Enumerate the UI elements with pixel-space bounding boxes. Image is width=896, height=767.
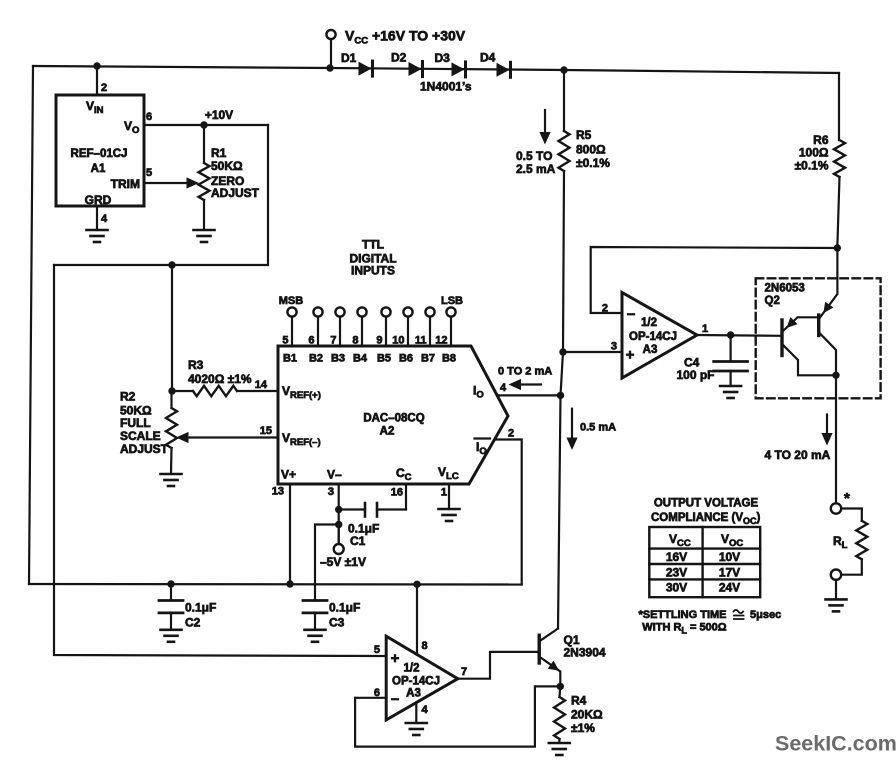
svg-text:+: +: [391, 650, 400, 667]
svg-text:+10V: +10V: [205, 108, 233, 122]
wiper wire pin15 to R2: [188, 436, 278, 438]
svg-text:1: 1: [702, 323, 708, 335]
pin 4 wire REF GRD: [96, 206, 98, 230]
svg-text:16: 16: [391, 487, 403, 499]
node: load terminal bottom: [831, 570, 841, 580]
svg-text:RL: RL: [833, 534, 848, 551]
svg-text:–: –: [391, 691, 399, 708]
input terminal bit B1 pin 5: [287, 307, 296, 316]
svg-text:100Ω: 100Ω: [799, 146, 829, 160]
svg-text:FULL: FULL: [120, 416, 151, 430]
svg-text:C1: C1: [350, 534, 366, 548]
wire: V+ bus horizontal: [29, 583, 522, 586]
annotation arrow 0.5 mA: [571, 409, 573, 438]
svg-text:C3: C3: [329, 616, 345, 630]
diode D1: [359, 62, 372, 76]
ground op-amp A3b: [406, 723, 427, 735]
capacitor C4 100 pF: [729, 335, 731, 362]
svg-text:SeekIC.com: SeekIC.com: [775, 732, 896, 756]
svg-text:1/2: 1/2: [641, 317, 657, 329]
svg-text:SCALE: SCALE: [120, 429, 161, 443]
resistor R3 4020 ohm: [168, 387, 175, 394]
svg-text:VCC: VCC: [669, 532, 691, 549]
wire: DAC IO pin4 output: [497, 394, 560, 396]
wire: left vertical VCC branch: [29, 66, 33, 584]
svg-text:5: 5: [374, 644, 380, 656]
svg-text:A1: A1: [91, 163, 106, 175]
svg-text:10: 10: [392, 335, 404, 347]
svg-text:R5: R5: [576, 128, 592, 142]
transistor Q2a driver base bar: [780, 320, 783, 356]
svg-text:8: 8: [352, 335, 358, 347]
input terminal bit B8 pin 12: [446, 307, 455, 316]
wire: feedback loop op-amp pin6 to Q1 emitter: [355, 686, 560, 746]
svg-text:23V: 23V: [666, 565, 687, 579]
svg-text:OP-14CJ: OP-14CJ: [629, 331, 677, 343]
ground REF A1: [87, 230, 108, 242]
svg-text:D1: D1: [341, 51, 357, 65]
wire: op-amp output pin 7 to Q1 base: [458, 652, 538, 679]
svg-text:GRD: GRD: [85, 193, 112, 207]
svg-text:7: 7: [330, 335, 336, 347]
pin 6 wire -input: [355, 697, 386, 699]
svg-text:3: 3: [328, 486, 334, 498]
svg-text:VOC: VOC: [721, 532, 743, 549]
svg-text:*SETTLING TIME: *SETTLING TIME: [639, 609, 727, 621]
svg-text:4: 4: [101, 213, 108, 225]
Q2a emitter to Q2b base with arrow: [783, 317, 819, 331]
svg-text:MSB: MSB: [279, 295, 304, 307]
pin 16 wire DAC Cc: [405, 484, 407, 510]
svg-text:R4: R4: [571, 694, 587, 708]
ground R1: [194, 230, 215, 242]
junction dot feedback node: [834, 244, 841, 251]
svg-text:B4: B4: [353, 353, 368, 365]
svg-text:0 TO 2 mA: 0 TO 2 mA: [498, 366, 552, 378]
svg-text:4020Ω ±1%: 4020Ω ±1%: [188, 372, 252, 386]
wire: op-amp output pin 1 to Q2 base: [697, 334, 782, 337]
svg-text:13: 13: [272, 486, 284, 498]
svg-text:24V: 24V: [719, 581, 740, 595]
ground R2: [161, 474, 182, 486]
svg-text:R3: R3: [188, 358, 204, 372]
svg-text:B3: B3: [331, 353, 345, 365]
svg-text:D2: D2: [391, 51, 407, 65]
svg-text:B6: B6: [399, 353, 413, 365]
svg-text:DAC–08CQ: DAC–08CQ: [363, 413, 424, 425]
svg-text:9: 9: [376, 335, 382, 347]
svg-text:1N4001’s: 1N4001’s: [420, 80, 472, 94]
svg-text:5μsec: 5μsec: [750, 609, 781, 621]
svg-text:–: –: [627, 306, 635, 323]
svg-text:2: 2: [101, 82, 107, 94]
svg-text:R2: R2: [120, 390, 136, 404]
svg-text:2: 2: [602, 303, 608, 315]
svg-text:ADJUST: ADJUST: [211, 186, 260, 200]
svg-text:5: 5: [146, 167, 152, 179]
svg-text:REF–01CJ: REF–01CJ: [71, 148, 128, 160]
load resistor RL: [841, 509, 862, 521]
svg-text:ADJUST: ADJUST: [120, 442, 169, 456]
node -5V terminal: [335, 521, 342, 528]
annotation arrow 0 TO 2 mA: [518, 383, 541, 385]
ground RL: [826, 599, 847, 611]
Q2b collector wire: [820, 334, 836, 376]
capacitor C1 0.1uF between V- and Cc: [335, 506, 342, 513]
ground C4: [720, 386, 741, 398]
svg-text:*: *: [844, 490, 850, 507]
junction dot bus C2: [167, 580, 174, 587]
svg-text:C2: C2: [185, 616, 201, 630]
svg-text:6: 6: [146, 111, 152, 123]
svg-text:2N6053: 2N6053: [765, 283, 805, 295]
op-amp U-A3b 1/2 OP-14CJ (bottom): [386, 636, 458, 720]
svg-text:OUTPUT VOLTAGE: OUTPUT VOLTAGE: [654, 498, 759, 510]
svg-text:30V: 30V: [666, 581, 687, 595]
svg-text:R1: R1: [211, 146, 227, 160]
svg-text:0.5 mA: 0.5 mA: [580, 422, 616, 434]
svg-text:VREF(+): VREF(+): [282, 384, 321, 401]
svg-text:2.5 mA: 2.5 mA: [516, 162, 556, 176]
svg-text:16V: 16V: [666, 550, 687, 564]
svg-text:VO: VO: [124, 119, 139, 136]
svg-text:TRIM: TRIM: [111, 177, 140, 191]
svg-text:A3: A3: [406, 688, 421, 700]
svg-text:VLC: VLC: [438, 465, 459, 482]
ground R4: [549, 743, 570, 755]
svg-text:±0.1%: ±0.1%: [795, 159, 829, 173]
pin 3 wire to top op-amp +input: [559, 348, 566, 355]
diode D4: [497, 63, 510, 77]
svg-text:TTL: TTL: [362, 238, 384, 252]
capacitor C2 0.1uF: [170, 584, 172, 601]
pin 1 wire DAC VLC to ground: [448, 484, 450, 509]
svg-text:IO: IO: [476, 440, 487, 457]
annotation arrow 0.5 TO 2.5 mA: [544, 110, 546, 134]
input terminal bit B4 pin 8: [357, 307, 366, 316]
svg-text:1: 1: [441, 487, 447, 499]
svg-text:0.5 TO: 0.5 TO: [516, 149, 552, 163]
input terminal bit B7 pin 11: [425, 307, 434, 316]
svg-text:±0.1%: ±0.1%: [576, 156, 610, 170]
pin 13 wire DAC V+ to bus: [289, 484, 291, 584]
svg-text:0.1μF: 0.1μF: [185, 601, 216, 615]
svg-text:VCC +16V TO +30V: VCC +16V TO +30V: [345, 28, 466, 47]
svg-text:WITH RL = 500Ω: WITH RL = 500Ω: [642, 622, 726, 636]
junction dot IO node: [557, 392, 564, 399]
svg-text:B8: B8: [442, 353, 456, 365]
svg-text:INPUTS: INPUTS: [351, 264, 395, 278]
Q1 collector wire: [541, 629, 559, 641]
ground C2: [161, 630, 182, 642]
wire: DAC IObar pin2 to bus: [495, 440, 522, 585]
svg-text:20KΩ: 20KΩ: [571, 708, 603, 722]
transistor Q2 2N6053 dashed package box: [756, 278, 881, 398]
diode D3: [452, 62, 465, 76]
op-amp U-A3a 1/2 OP-14CJ (top): [622, 293, 697, 379]
svg-text:A2: A2: [380, 426, 395, 438]
node: VCC terminal: [326, 30, 335, 39]
svg-text:15: 15: [260, 425, 272, 437]
svg-text:2N3904: 2N3904: [564, 646, 606, 660]
svg-text:4: 4: [500, 382, 507, 394]
wire: +10V net right side down: [54, 125, 268, 265]
junction dot VCC rail: [326, 64, 333, 71]
resistor R6 100 ohm: [838, 73, 840, 140]
svg-text:V+: V+: [281, 468, 296, 482]
svg-text:B2: B2: [309, 353, 323, 365]
annotation arrow 4 TO 20 mA: [826, 415, 828, 435]
svg-text:A3: A3: [643, 344, 658, 356]
potentiometer R2 50K FULL SCALE ADJUST: [170, 391, 172, 408]
svg-text:10V: 10V: [719, 550, 740, 564]
pin 3 wire DAC V-: [338, 484, 340, 544]
wire: feedback from R6 to op-amp pin2: [591, 247, 838, 313]
wire: +10V net left drop to lower op-amp +input: [54, 265, 386, 656]
pin 2 wire REF VIN: [96, 66, 98, 95]
svg-text:OP-14CJ: OP-14CJ: [392, 676, 440, 688]
svg-text:5: 5: [282, 335, 288, 347]
svg-text:7: 7: [461, 666, 467, 678]
node: load terminal top: [831, 503, 841, 513]
svg-text:B5: B5: [377, 353, 391, 365]
svg-text:VREF(–): VREF(–): [282, 431, 321, 448]
svg-text:4: 4: [422, 704, 429, 716]
transistor Q1 2N3904 base bar: [538, 635, 541, 663]
svg-text:V–: V–: [327, 468, 342, 482]
Q1 emitter wire with arrow: [541, 658, 561, 687]
svg-text:B7: B7: [421, 353, 435, 365]
wire -5V branch to C3: [315, 525, 339, 601]
svg-text:800Ω: 800Ω: [576, 143, 606, 157]
svg-text:VIN: VIN: [86, 99, 104, 116]
wire: top VCC rail: [33, 66, 839, 73]
Q2a collector wire: [783, 345, 836, 375]
capacitor C3 0.1uF: [303, 599, 327, 602]
svg-text:IO: IO: [473, 384, 484, 401]
input terminal bit B2 pin 6: [313, 307, 322, 316]
ground C3: [305, 630, 326, 642]
svg-text:2: 2: [508, 428, 514, 440]
junction dot C4: [727, 331, 734, 338]
ground VLC: [439, 509, 460, 521]
svg-text:50KΩ: 50KΩ: [211, 159, 243, 173]
svg-text:8: 8: [422, 640, 428, 652]
svg-text:4 TO 20 mA: 4 TO 20 mA: [765, 448, 831, 462]
junction dot bus DAC pin13: [286, 580, 293, 587]
svg-text:+: +: [626, 347, 635, 364]
transistor Q2b output base bar: [817, 315, 820, 336]
svg-text:6: 6: [308, 335, 314, 347]
resistor R4 20K: [558, 686, 561, 697]
input terminal bit B6 pin 10: [403, 307, 412, 316]
pin 5 wire REF TRIM to R1 wiper: [144, 182, 192, 184]
pin 4 wire op-amp V- to ground: [415, 703, 417, 724]
Q2b emitter wire with arrow to top: [820, 248, 837, 318]
svg-text:B1: B1: [283, 353, 297, 365]
svg-text:0.1μF: 0.1μF: [329, 601, 360, 615]
pin 8 wire op-amp V+ from bus: [416, 584, 418, 654]
junction dot bus op-amp pin8: [413, 581, 420, 588]
junction dot Q1 emitter R4: [557, 683, 564, 690]
svg-text:±1%: ±1%: [571, 721, 595, 735]
junction dot +10V node: [200, 121, 207, 128]
potentiometer R1 50K ZERO ADJUST: [203, 125, 205, 163]
IC U-A1 REF-01CJ box: [56, 95, 144, 206]
svg-text:11: 11: [415, 335, 427, 347]
svg-text:Q2: Q2: [765, 295, 780, 307]
svg-text:CC: CC: [396, 466, 412, 483]
IC A2 DAC-08CQ outline: [278, 346, 508, 484]
junction dot Q2 collectors: [832, 372, 839, 379]
svg-text:12: 12: [435, 335, 447, 347]
svg-text:D3: D3: [435, 51, 451, 65]
svg-text:COMPLIANCE (VOC): COMPLIANCE (VOC): [651, 512, 761, 526]
junction dot +10V to R2/R3 branch: [168, 261, 175, 268]
svg-text:–5V ±1V: –5V ±1V: [320, 555, 366, 569]
junction dot REF pin2: [93, 62, 100, 69]
resistor R5 800 ohm with main current line: [563, 70, 565, 131]
input terminal bit B3 pin 7: [335, 307, 344, 316]
svg-text:LSB: LSB: [441, 295, 463, 307]
wire: output current line down to load: [835, 375, 837, 503]
pin 6 wire REF VO: [144, 124, 268, 126]
svg-text:3: 3: [611, 341, 617, 353]
input terminal bit B5 pin 9: [381, 307, 390, 316]
diode D2: [409, 62, 422, 76]
svg-text:100 pF: 100 pF: [677, 368, 715, 382]
table output voltage compliance: [649, 527, 760, 597]
wire: branch down to R3/R2: [171, 265, 173, 391]
svg-text:1/2: 1/2: [404, 663, 420, 675]
svg-text:D4: D4: [480, 51, 496, 65]
svg-text:14: 14: [255, 379, 268, 391]
svg-text:17V: 17V: [719, 565, 740, 579]
